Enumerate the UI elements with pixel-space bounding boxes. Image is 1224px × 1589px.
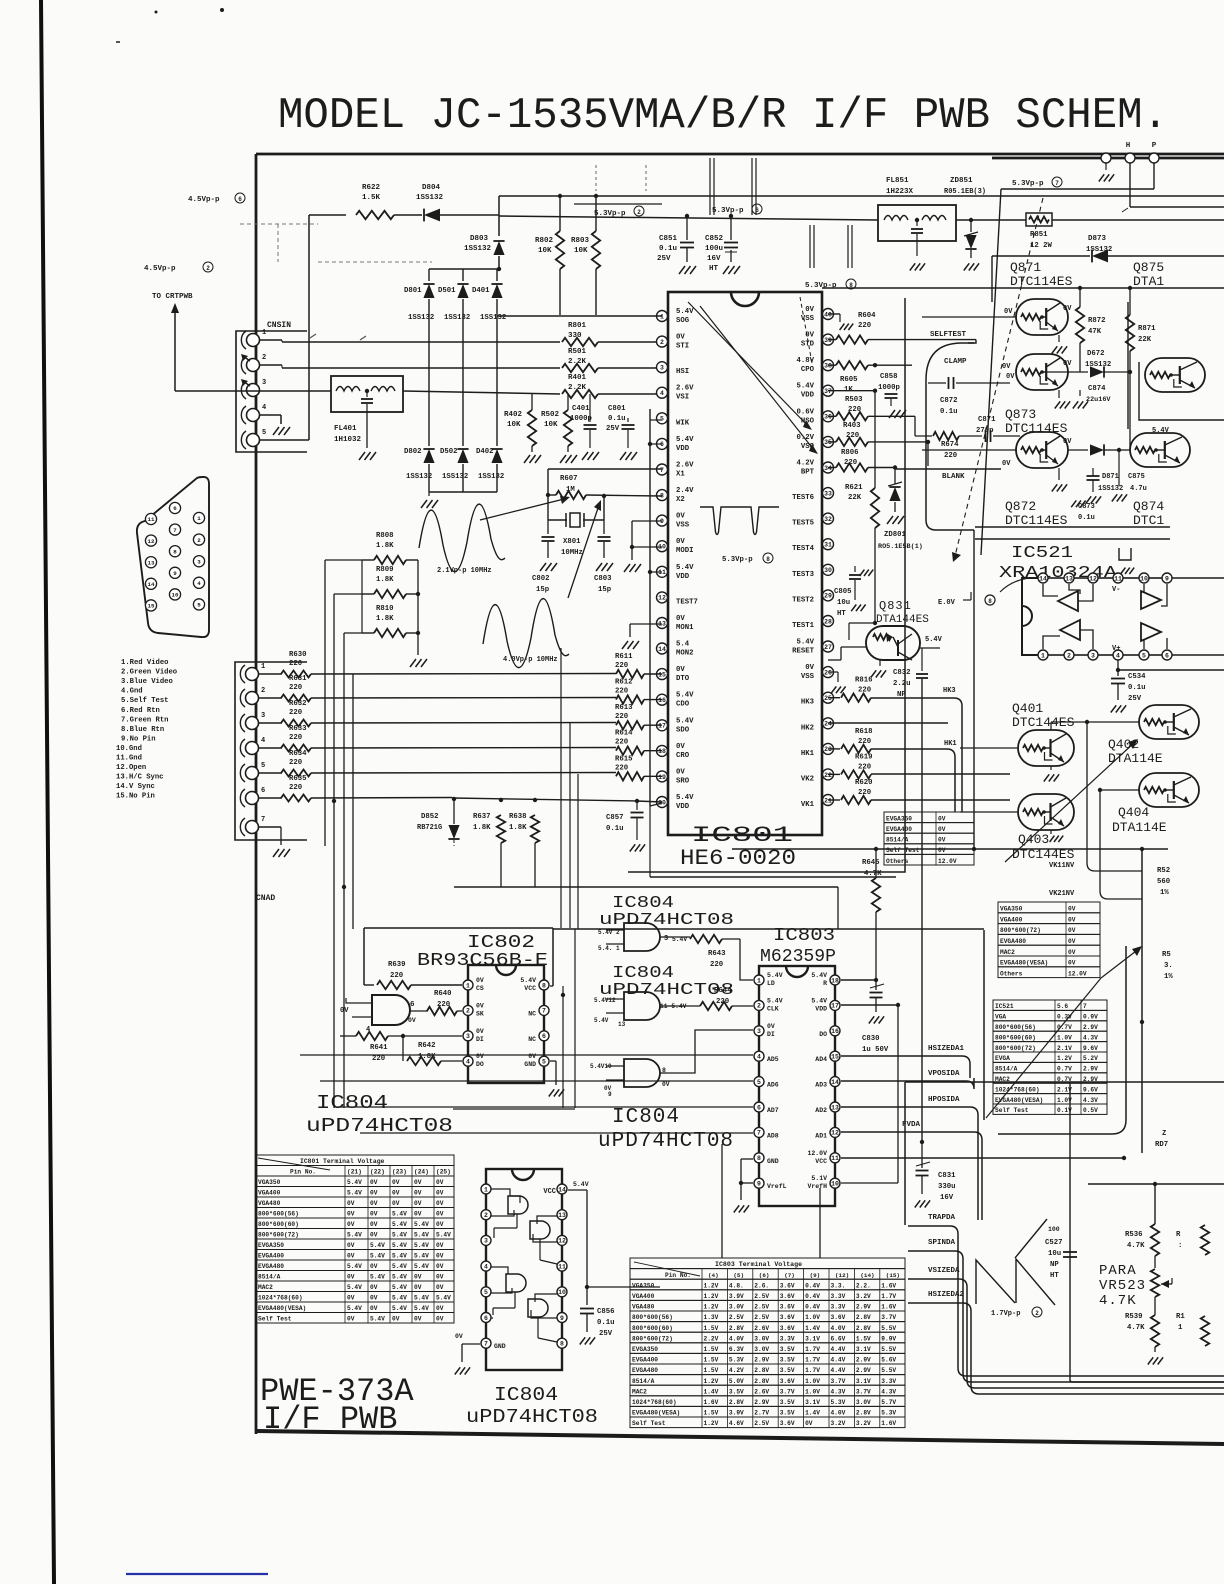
IC521 pin 1 bottom	[1038, 650, 1048, 660]
svg-text:R801: R801	[568, 322, 587, 330]
IC801 pin 20 VDD	[657, 794, 695, 811]
svg-text:MON2: MON2	[676, 650, 694, 658]
svg-text:5.4V: 5.4V	[392, 1284, 407, 1291]
transistor Q831 DTA144ES	[828, 599, 943, 678]
svg-text:(6): (6)	[759, 1272, 770, 1279]
connector CNAD pin 6	[240, 787, 265, 807]
IC801 pin 18 CRO	[657, 743, 690, 760]
svg-text:5.4V: 5.4V	[370, 1253, 385, 1260]
svg-text:1.6V: 1.6V	[881, 1304, 896, 1311]
svg-text:MODEL JC-1535VMA/B/R I/F PWB S: MODEL JC-1535VMA/B/R I/F PWB SCHEM.	[278, 91, 1168, 141]
svg-text:8514/A: 8514/A	[995, 1066, 1018, 1073]
svg-text:MAC2: MAC2	[632, 1388, 647, 1395]
AND gate IC804d	[340, 995, 416, 1034]
D-sub pin 12	[145, 535, 156, 546]
wire from P down	[981, 163, 1154, 555]
IC801 pin 19 SRO	[657, 768, 690, 785]
sine wave 2.1Vpp	[419, 504, 505, 575]
svg-text:5.4V: 5.4V	[676, 308, 694, 316]
svg-text:HT: HT	[1050, 1272, 1059, 1280]
svg-text:10: 10	[558, 1289, 566, 1296]
svg-text:2.6V: 2.6V	[676, 385, 694, 393]
svg-text:10: 10	[172, 592, 179, 599]
svg-text:0V: 0V	[528, 1053, 536, 1060]
svg-text:5.4V: 5.4V	[347, 1305, 362, 1312]
svg-text:5.5V: 5.5V	[881, 1325, 896, 1332]
svg-text:0V: 0V	[436, 1190, 444, 1197]
label 5.3Vp-p (8) mid	[805, 279, 856, 290]
svg-text:1024*768(60): 1024*768(60)	[995, 1086, 1040, 1093]
svg-text:15p: 15p	[536, 586, 550, 594]
svg-text:5.0V: 5.0V	[729, 1378, 744, 1385]
svg-text:4.0V: 4.0V	[831, 1325, 846, 1332]
svg-text:LD: LD	[767, 980, 775, 987]
svg-text:11.Gnd: 11.Gnd	[116, 755, 142, 763]
svg-text:1.7V: 1.7V	[805, 1367, 820, 1374]
svg-text:Self Test: Self Test	[632, 1420, 666, 1427]
IC801 pin 26 VSS	[801, 664, 834, 681]
svg-text:R503: R503	[845, 396, 863, 404]
IC802 pin 4 DO	[463, 1053, 484, 1068]
svg-text:0V: 0V	[676, 743, 685, 751]
IC801 pin 2 STI	[657, 334, 690, 351]
VK1 wire	[871, 799, 1010, 801]
svg-text:R645: R645	[862, 859, 880, 867]
svg-text:GND: GND	[494, 1343, 506, 1350]
svg-text:V+: V+	[1112, 645, 1120, 653]
svg-text:8: 8	[173, 548, 177, 555]
svg-text:2.8V: 2.8V	[856, 1325, 871, 1332]
label Q402 DTA114E	[1108, 737, 1163, 766]
svg-text:P: P	[1152, 142, 1157, 150]
svg-text:CLK: CLK	[767, 1005, 779, 1012]
svg-text:3.6V: 3.6V	[780, 1325, 795, 1332]
diag arrow to pin VSO	[700, 306, 818, 454]
svg-text:3.5V: 3.5V	[729, 1388, 744, 1395]
svg-text:3.: 3.	[1164, 962, 1173, 970]
resistor R536 4.7K	[1125, 1224, 1159, 1268]
svg-text:7: 7	[542, 1008, 546, 1015]
svg-text:8: 8	[560, 1341, 564, 1348]
svg-text:4.3V: 4.3V	[1083, 1034, 1098, 1041]
svg-text:1.5V: 1.5V	[704, 1367, 719, 1374]
svg-text:2: 2	[1067, 652, 1071, 659]
VK11NV VK21NV labels	[1049, 862, 1075, 898]
svg-text:1000p: 1000p	[878, 384, 901, 392]
svg-text:(7): (7)	[784, 1272, 795, 1279]
svg-text:220: 220	[615, 688, 628, 696]
IC801 pin 1 SOG	[657, 308, 695, 325]
inner blank box	[972, 530, 976, 851]
svg-text:12: 12	[658, 595, 666, 602]
diode D803 1SS132	[464, 215, 505, 269]
svg-text:1.8K: 1.8K	[473, 824, 491, 832]
wire FL401 to R401	[403, 391, 560, 394]
svg-text:VrefL: VrefL	[767, 1183, 787, 1190]
transistor Q402	[1139, 705, 1199, 739]
diode D672 1SS132	[1046, 350, 1132, 378]
page edge line	[41, 0, 54, 1584]
svg-text:8: 8	[757, 1155, 761, 1162]
svg-text:26: 26	[824, 670, 832, 677]
cap C875 4.7u	[1128, 473, 1147, 493]
IC801 pin 6 VDD	[657, 436, 695, 453]
IC801 pin 17 SDO	[657, 717, 695, 734]
svg-text:0V: 0V	[662, 1081, 670, 1088]
diode D501 1SS132 upper	[457, 269, 468, 340]
IC521 opamp D	[1141, 623, 1167, 649]
svg-text:2.5V: 2.5V	[754, 1314, 769, 1321]
svg-text:6: 6	[484, 1315, 488, 1322]
svg-text:R501: R501	[568, 348, 587, 356]
svg-text:5.4V: 5.4V	[676, 436, 694, 444]
IC803 ADx wires	[666, 1030, 753, 1073]
label 4.5Vp-p (2)	[144, 262, 213, 273]
verticals right of IC802	[453, 929, 575, 1109]
svg-text:5.3V: 5.3V	[729, 1357, 744, 1364]
svg-text:330u: 330u	[938, 1183, 956, 1191]
IC804 pin 4	[481, 1261, 491, 1271]
svg-text:5.4V: 5.4V	[676, 717, 694, 725]
svg-text:0V: 0V	[414, 1316, 422, 1323]
svg-text:220: 220	[944, 452, 957, 460]
svg-text:0.1u: 0.1u	[1078, 514, 1095, 522]
svg-text:5.4V: 5.4V	[796, 639, 814, 647]
vertical bus x650 IC801 left	[648, 409, 662, 877]
svg-text:0V: 0V	[347, 1242, 355, 1249]
wire y897	[560, 896, 860, 898]
svg-text:29: 29	[824, 593, 832, 600]
svg-text:HK1: HK1	[801, 750, 815, 758]
resistor R539 4.7K	[1125, 1297, 1163, 1365]
IC521 pin 4 bottom	[1113, 650, 1123, 660]
svg-text:0V: 0V	[370, 1221, 378, 1228]
svg-text:2: 2	[637, 209, 641, 216]
svg-text:R809: R809	[376, 566, 394, 574]
svg-text:14: 14	[831, 1079, 839, 1086]
svg-text:R52: R52	[1157, 867, 1170, 875]
pin37 wire	[828, 389, 877, 393]
svg-text:10.Gnd: 10.Gnd	[116, 745, 142, 753]
svg-text:4: 4	[262, 404, 266, 412]
IC804 pin 1	[481, 1184, 491, 1194]
svg-text:5.3V: 5.3V	[881, 1410, 896, 1417]
svg-text:R604: R604	[858, 312, 876, 320]
svg-text:5.3Vp-p: 5.3Vp-p	[712, 207, 744, 215]
IC801 pin 28 TEST1	[792, 616, 833, 631]
svg-text:Q872: Q872	[1005, 499, 1036, 514]
svg-text:0.4V: 0.4V	[805, 1293, 820, 1300]
svg-text:1: 1	[466, 982, 470, 989]
svg-text:4.4V: 4.4V	[831, 1357, 846, 1364]
label Q875 DTA1	[1133, 260, 1164, 289]
label IC804 bottom	[466, 1384, 598, 1428]
svg-text:Q403: Q403	[1018, 832, 1049, 847]
svg-text:1.5K: 1.5K	[362, 194, 381, 202]
svg-text:0V: 0V	[676, 538, 685, 546]
svg-text:0V: 0V	[340, 1007, 349, 1015]
svg-text:EVGA480(VESA): EVGA480(VESA)	[258, 1305, 306, 1312]
svg-text:0.9V: 0.9V	[1083, 1014, 1098, 1021]
svg-text:3: 3	[466, 1033, 470, 1040]
svg-text:9: 9	[560, 1315, 564, 1322]
svg-text:220: 220	[710, 961, 723, 969]
svg-text:32: 32	[824, 516, 832, 523]
svg-text:330: 330	[568, 332, 582, 340]
svg-text:CS: CS	[476, 985, 484, 992]
svg-text:VK1: VK1	[801, 801, 815, 809]
IC803 pin 9 VrefL	[754, 1178, 787, 1190]
C872 cap 0.1u	[928, 373, 1015, 416]
svg-text:17: 17	[831, 1003, 839, 1010]
svg-text:EVGA: EVGA	[995, 1055, 1010, 1062]
svg-text:220: 220	[858, 738, 871, 746]
transistor Q873	[1002, 354, 1088, 409]
svg-text:3.1V: 3.1V	[805, 1399, 820, 1406]
svg-text:IC801: IC801	[691, 823, 793, 848]
svg-text:13: 13	[148, 559, 155, 566]
svg-text:CPO: CPO	[801, 366, 815, 374]
box around IC801 right	[628, 298, 905, 872]
IC521 pin 5 bottom	[1139, 650, 1149, 660]
svg-text:1.8K: 1.8K	[376, 615, 394, 623]
svg-text:DTA114E: DTA114E	[1108, 751, 1163, 766]
IC801 name	[0, 0, 1, 1]
svg-text:0V: 0V	[676, 666, 685, 674]
svg-text:VCC: VCC	[524, 985, 536, 992]
IC804 pin 2	[481, 1210, 491, 1220]
svg-text:800*600(72): 800*600(72)	[1000, 927, 1041, 934]
svg-text:(4): (4)	[708, 1272, 719, 1279]
svg-text:CDO: CDO	[676, 701, 690, 709]
svg-text:3: 3	[197, 558, 201, 565]
svg-text:8.Blue Rtn: 8.Blue Rtn	[121, 726, 164, 734]
svg-text:5.4V: 5.4V	[347, 1284, 362, 1291]
svg-text:0V: 0V	[805, 1420, 813, 1427]
svg-text:GND: GND	[767, 1158, 779, 1165]
label PWE-373A	[260, 1373, 414, 1410]
svg-text:VGA400: VGA400	[632, 1293, 655, 1300]
svg-text:11: 11	[558, 1263, 566, 1270]
pot VR523	[1151, 1269, 1172, 1297]
svg-text:5.4V: 5.4V	[392, 1242, 407, 1249]
svg-text:6: 6	[660, 441, 664, 448]
svg-text:NC: NC	[528, 1036, 536, 1043]
svg-text:8: 8	[988, 598, 992, 605]
svg-text:0V: 0V	[676, 513, 685, 521]
svg-text:4.2V: 4.2V	[796, 460, 814, 468]
svg-text:Q873: Q873	[1005, 407, 1036, 422]
IC521 opamp B	[1043, 620, 1093, 649]
mid stub lines	[810, 225, 852, 268]
svg-text:0.3V: 0.3V	[1057, 1014, 1072, 1021]
IC521 pin 6 bottom	[1162, 650, 1172, 660]
IC804 GND pin7	[455, 1333, 506, 1375]
IC802 pin 8 VCC	[520, 977, 549, 992]
cap C831 330u 16V	[915, 1140, 956, 1208]
svg-text:12: 12	[1089, 575, 1097, 582]
wire y800	[452, 797, 662, 802]
svg-text:D873: D873	[1088, 235, 1107, 243]
svg-text:RD7: RD7	[1155, 1141, 1168, 1149]
resistor R808 1.8K	[362, 532, 418, 564]
label IC804 #1	[599, 894, 734, 930]
svg-text:0V: 0V	[476, 977, 484, 984]
svg-text:EVGA480: EVGA480	[1000, 938, 1026, 945]
sawtooth waveform	[976, 1219, 1055, 1305]
svg-text:E.0V: E.0V	[938, 599, 956, 607]
svg-text:800*600(72): 800*600(72)	[995, 1045, 1036, 1052]
svg-text:R631: R631	[289, 675, 307, 683]
svg-text:DTA1: DTA1	[1133, 274, 1164, 289]
svg-text:1.4V: 1.4V	[805, 1410, 820, 1417]
svg-text:C527: C527	[1045, 1239, 1063, 1247]
svg-text:5.4V: 5.4V	[347, 1179, 362, 1186]
IC801 pin 9 VSS	[657, 513, 690, 530]
svg-text:3.0V: 3.0V	[856, 1399, 871, 1406]
svg-text:2: 2	[660, 339, 664, 346]
svg-text:4.5Vp-p: 4.5Vp-p	[188, 196, 220, 204]
resistor R613 220	[615, 704, 662, 729]
svg-text:3.5V: 3.5V	[780, 1399, 795, 1406]
svg-text:3.5V: 3.5V	[780, 1357, 795, 1364]
svg-text:0V: 0V	[370, 1190, 378, 1197]
svg-text:D802: D802	[404, 448, 422, 456]
svg-text:5.4V: 5.4V	[414, 1263, 429, 1270]
IC801 pin 25 HK3	[801, 692, 834, 707]
svg-text:5.4V: 5.4V	[414, 1221, 429, 1228]
svg-text:Q874: Q874	[1133, 499, 1164, 514]
svg-text:Q401: Q401	[1012, 701, 1043, 716]
svg-text:25V: 25V	[606, 425, 620, 433]
svg-text:2.8V: 2.8V	[729, 1325, 744, 1332]
svg-text:0V: 0V	[370, 1211, 378, 1218]
D-sub pin 3	[193, 556, 204, 567]
svg-text:1.5V: 1.5V	[704, 1357, 719, 1364]
connector CNAD pin 2	[240, 687, 265, 707]
transistor Q404	[1098, 773, 1199, 807]
svg-text:3.5V: 3.5V	[780, 1367, 795, 1374]
svg-text:4.7u: 4.7u	[1130, 485, 1147, 493]
IC803 pin 13 AD2	[815, 1102, 840, 1114]
diode D804 1SS132	[394, 184, 499, 221]
svg-text:AD1: AD1	[815, 1132, 827, 1139]
svg-text:5.4V: 5.4V	[414, 1253, 429, 1260]
diode D502 1SS132 lower	[457, 340, 468, 492]
svg-text:(12): (12)	[835, 1272, 849, 1279]
svg-text:5.4V: 5.4V	[676, 692, 694, 700]
svg-text:4.8V: 4.8V	[796, 357, 814, 365]
svg-text:3.5V: 3.5V	[780, 1346, 795, 1353]
resistor R637 1.8K	[473, 813, 505, 887]
IC803 pin 15 AD4	[815, 1051, 840, 1063]
svg-text:2.Green Video: 2.Green Video	[121, 669, 177, 677]
svg-text:VK21NV: VK21NV	[1049, 890, 1075, 898]
svg-text:D672: D672	[1087, 350, 1105, 358]
label Q872 DTC114ES	[1005, 499, 1068, 528]
svg-text:2.1Vp-p 10MHz: 2.1Vp-p 10MHz	[437, 567, 492, 575]
svg-text:0V: 0V	[347, 1211, 355, 1218]
labels D802 D502 D402	[404, 448, 494, 456]
zener ZD851	[944, 177, 986, 271]
svg-text:D502: D502	[440, 448, 458, 456]
IC802 pin5 ground wire	[549, 1061, 564, 1097]
svg-text:3.6V: 3.6V	[780, 1282, 795, 1289]
svg-text:800*600(56): 800*600(56)	[632, 1314, 673, 1321]
svg-text:HK3: HK3	[801, 699, 815, 707]
label Q404 DTA114E	[1112, 805, 1167, 835]
svg-text:I/F PWB: I/F PWB	[263, 1401, 397, 1438]
svg-text:0V: 0V	[1068, 916, 1076, 923]
svg-text:AD7: AD7	[767, 1107, 779, 1114]
svg-text:D801: D801	[404, 287, 422, 295]
svg-text:2.6.: 2.6.	[754, 1282, 769, 1289]
svg-text:1SS132: 1SS132	[1086, 246, 1112, 254]
svg-text:220: 220	[289, 709, 302, 717]
svg-text:(25): (25)	[436, 1169, 451, 1176]
connector CNAD pin 1	[240, 663, 265, 683]
svg-text:4.7K: 4.7K	[1127, 1242, 1145, 1250]
label 5.3Vp-p (8) inside	[722, 553, 773, 564]
IC521 opamp C	[1141, 584, 1167, 609]
IC801 pin 36 HSO	[796, 408, 833, 425]
rail under lower diodes	[421, 492, 497, 508]
AND gate IC804c	[590, 1059, 670, 1098]
IC801 pin 23 HK1	[801, 743, 834, 758]
svg-text:10: 10	[1140, 575, 1148, 582]
svg-text:3: 3	[261, 712, 265, 720]
svg-text:VGA350: VGA350	[258, 1179, 281, 1186]
svg-text:6.3V: 6.3V	[729, 1346, 744, 1353]
transistor Q401	[960, 730, 1074, 782]
svg-text:13.H/C Sync: 13.H/C Sync	[116, 774, 163, 782]
svg-text:R1: R1	[1176, 1313, 1185, 1321]
svg-text:12: 12	[558, 1238, 566, 1245]
svg-text:NP: NP	[1050, 1261, 1059, 1269]
label IC804 #2	[306, 1092, 453, 1137]
labels 1SS132 row1	[408, 314, 506, 322]
pin26 gnd	[828, 672, 846, 693]
resistor R816 220	[828, 677, 873, 702]
svg-text:10u: 10u	[1048, 1250, 1061, 1258]
svg-text:18: 18	[658, 748, 666, 755]
svg-text:AD3: AD3	[815, 1082, 827, 1089]
svg-text:1%: 1%	[1160, 889, 1169, 897]
svg-text:HSIZEDA2: HSIZEDA2	[928, 1291, 965, 1299]
svg-text:1H223X: 1H223X	[886, 188, 914, 196]
svg-text:C805: C805	[834, 588, 852, 596]
IC802 pin 6 NC	[528, 1031, 549, 1043]
label 5.3Vp-p (2) top	[574, 204, 662, 218]
svg-text:0V: 0V	[370, 1200, 378, 1207]
label IC802 BR93C56B-E	[417, 933, 548, 971]
svg-text:0V: 0V	[1063, 438, 1072, 446]
svg-text:0V: 0V	[436, 1221, 444, 1228]
svg-text:560: 560	[1157, 878, 1170, 886]
svg-text:4.Gnd: 4.Gnd	[121, 688, 143, 696]
svg-text:2.2.: 2.2.	[856, 1282, 871, 1289]
svg-text:R803: R803	[571, 237, 590, 245]
svg-text:12.0V: 12.0V	[807, 1150, 827, 1157]
IC521 opamp A	[1043, 584, 1093, 611]
svg-text:1: 1	[660, 313, 664, 320]
svg-text:800*600(72): 800*600(72)	[258, 1232, 299, 1239]
IC804 pin 12	[557, 1235, 567, 1245]
label IC521 XRA10324A	[999, 544, 1134, 583]
vertical wire x309	[308, 215, 310, 440]
svg-text:VCC: VCC	[543, 1188, 556, 1196]
svg-text:1.6V: 1.6V	[881, 1420, 896, 1427]
